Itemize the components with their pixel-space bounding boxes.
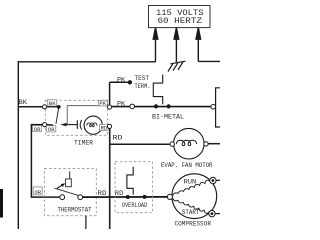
timer motor M1 [84, 116, 102, 134]
thermostat blade [55, 188, 80, 196]
wire: fan motor to right edge [208, 143, 220, 145]
wire: to evap fan motor [110, 143, 170, 145]
svg-text:RD: RD [113, 135, 124, 142]
terminal BK (timer top-left) [43, 105, 47, 109]
label box OR (inside timer) [47, 126, 56, 133]
terminal OR (timer bottom-left) [43, 123, 47, 127]
svg-text:COMPRESSOR: COMPRESSOR [175, 220, 212, 227]
wire: BK terminal to pivot [47, 106, 58, 108]
compressor motor [172, 174, 217, 219]
svg-text:PK: PK [117, 76, 125, 83]
fan terminal right [204, 142, 208, 146]
timer box (dashed) [45, 100, 107, 135]
junction dot left of bi-metal [154, 104, 158, 108]
overload box (dashed) [115, 162, 153, 213]
wire: thermostat to compressor [83, 196, 168, 198]
thermostat terminal right [78, 195, 83, 200]
thermostat capillary stub [85, 216, 87, 229]
connector circle at heater [211, 104, 216, 109]
coupling bar [76, 120, 78, 129]
wire: right arrow to right edge [198, 60, 220, 62]
svg-text:OVERLOAD: OVERLOAD [122, 202, 148, 209]
timer motor winding [87, 123, 97, 127]
thermostat terminal left [60, 195, 65, 200]
overload junction dot right [143, 195, 147, 199]
fan motor winding [176, 140, 197, 145]
wire: OR branch (left, L-shape down to thermostat) [31, 125, 59, 198]
arrow to ground (middle) [174, 28, 179, 63]
wire: run stub [216, 179, 220, 181]
svg-text:OR: OR [34, 126, 41, 133]
junction dot right of bi-metal [167, 104, 171, 108]
svg-text:60 HERTZ: 60 HERTZ [158, 16, 203, 26]
svg-text:OR: OR [48, 126, 55, 133]
svg-text:THERMOSTAT: THERMOSTAT [58, 207, 92, 214]
svg-text:RUN: RUN [184, 178, 197, 185]
coupling arc [80, 120, 82, 130]
overload junction dot left [126, 195, 130, 199]
label box PK (timer) [98, 100, 107, 107]
test terminal dot [128, 80, 132, 84]
svg-text:OR: OR [35, 189, 42, 196]
wire: top edge from left rail to left arrow [18, 61, 156, 63]
start terminal [209, 210, 215, 216]
wire: OR terminal stub inside timer [47, 124, 53, 126]
svg-text:BK: BK [49, 100, 56, 107]
svg-text:RD: RD [98, 190, 107, 197]
junction pivot dot [57, 105, 61, 109]
connector circle on PK run [130, 104, 135, 109]
wire: start stub [215, 213, 220, 215]
svg-text:TIMER: TIMER [74, 139, 93, 146]
label box OR (outside) [33, 126, 42, 133]
svg-text:START: START [182, 209, 200, 216]
terminal PK (timer right top) [107, 105, 111, 109]
overload protector [127, 167, 133, 195]
fan terminal left [170, 142, 174, 146]
arrow contact (timer motor lead, pointing left) [60, 123, 77, 126]
ground symbol [168, 61, 186, 71]
wire: loop from motor lead up to PK terminal [67, 106, 108, 125]
wire: test terminal riser [109, 82, 111, 105]
compressor common terminal [167, 194, 172, 199]
evap fan motor [174, 128, 205, 159]
svg-text:TERM.: TERM. [135, 83, 151, 90]
defrost heater box (cut at right edge) [216, 88, 220, 127]
label box RD (timer) [100, 124, 109, 131]
run terminal [210, 177, 216, 183]
svg-text:TEST: TEST [135, 75, 150, 82]
power source box 115 VOLTS 60 HERTZ [149, 6, 211, 28]
arrow to L1 (left) [153, 28, 158, 62]
wire: main PK run to right box [112, 106, 211, 108]
label box OR (lower) [33, 187, 42, 196]
svg-text:BI-METAL: BI-METAL [152, 113, 184, 120]
timer switch arm [56, 108, 59, 124]
svg-text:BK: BK [19, 99, 28, 106]
thermostat adjust arrow [57, 183, 66, 188]
arrow to L2 (right) [196, 28, 201, 62]
label box BK [48, 100, 57, 107]
svg-text:EVAP. FAN MOTOR: EVAP. FAN MOTOR [161, 162, 213, 169]
svg-text:RD: RD [115, 190, 124, 197]
start winding [173, 199, 210, 214]
run winding [173, 180, 211, 195]
terminal RD (timer right bottom) [107, 124, 111, 128]
svg-text:PK: PK [99, 100, 106, 107]
edge artifact bar [0, 189, 3, 218]
wire: left rail [17, 61, 19, 229]
wire: RD riser from timer down [109, 129, 111, 230]
bi-metal defrost switch [153, 75, 162, 105]
thermostat bellows [66, 179, 72, 187]
svg-text:RD: RD [101, 124, 108, 131]
thermostat box (dashed) [44, 169, 96, 216]
wire: BK feed to timer [18, 106, 43, 108]
